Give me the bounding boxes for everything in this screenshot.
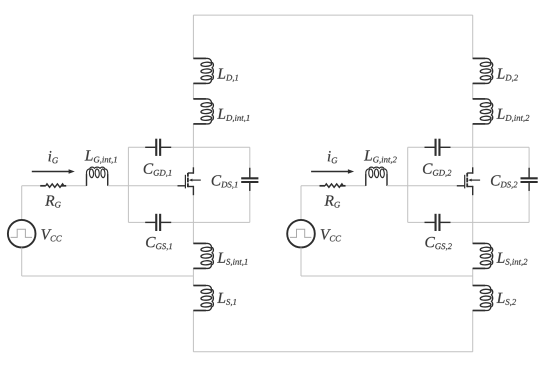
label C_GD,1: [144, 163, 172, 177]
wire L_D,int,1 to MOSFET Q1 drain: [192, 124, 194, 168]
wire between L_S,int,2 and L_S,2 (node S2): [472, 268, 474, 285]
inductor L_S,int,1: [193, 243, 213, 268]
wire gate return to node between L_S,int,2 and L_S,2: [301, 275, 473, 277]
capacitor C_DS,1: [241, 168, 258, 191]
wire top rail (drain bus): [193, 14, 472, 16]
box top edge right of C_GD,2: [440, 146, 529, 148]
capacitor C_GD,1: [145, 139, 171, 156]
label C_GS,1: [146, 237, 172, 251]
box parasitic-capacitance boundary left edge (cell 1): [127, 147, 129, 222]
wire between L_D,2 and L_D,int,2: [472, 83, 474, 99]
label C_DS,2: [491, 175, 517, 189]
wire L_S,2 to bottom rail: [472, 311, 474, 352]
wire V_CC2 negative lead: [300, 248, 302, 277]
wire V_CC2 positive lead: [300, 186, 302, 220]
voltage source V_CC (cell 2): [287, 220, 315, 248]
capacitor C_GS,1: [145, 214, 171, 231]
wire V_CC1 positive lead: [21, 186, 23, 220]
inductor L_D,int,1: [193, 99, 213, 124]
label i_G (cell 1): [49, 151, 59, 163]
label L_G,int,2: [364, 150, 397, 163]
inductor L_G,int,1: [87, 167, 108, 186]
wire V_CC1 negative lead: [21, 248, 23, 277]
capacitor C_GS,2: [425, 214, 451, 231]
wire L_D,int,2 to MOSFET Q2 drain: [472, 124, 474, 168]
box right edge above C_DS,1: [249, 147, 251, 177]
wire L_G,int,2 to MOSFET Q2 gate: [387, 185, 458, 187]
current arrow i_G (cell 1): [32, 169, 75, 173]
label R_G (cell 1): [45, 196, 61, 208]
inductor L_D,2: [473, 58, 493, 83]
inductor L_G,int,2: [366, 167, 387, 186]
capacitor C_DS,2: [521, 168, 538, 191]
wire V_CC2 to R_G (cell 2): [301, 185, 320, 187]
MOSFET Q1: [178, 167, 201, 195]
wire drain bus drop to L_D,2: [472, 15, 474, 58]
wire bottom rail (source bus): [193, 351, 472, 353]
label R_G (cell 2): [324, 196, 340, 208]
wire between L_S,int,1 and L_S,1 (node S1): [192, 268, 194, 285]
box bottom edge right of C_GS,1: [161, 221, 250, 223]
box right edge below C_DS,1: [249, 183, 251, 222]
box top edge right of C_GD,1: [161, 146, 250, 148]
resistor R_G (cell 1): [40, 184, 66, 187]
inductor L_S,1: [193, 286, 213, 311]
inductor L_D,1: [193, 58, 213, 83]
label C_GD,2: [423, 163, 451, 177]
label L_D,1: [217, 69, 238, 82]
wire MOSFET Q1 source to L_S,int,1: [192, 195, 194, 243]
box right edge above C_DS,2: [528, 147, 530, 177]
MOSFET Q2: [457, 167, 480, 195]
inductor L_S,2: [473, 286, 493, 311]
wire drain bus drop to L_D,1: [192, 15, 194, 58]
box top edge left of C_GD,2: [408, 146, 435, 148]
label V_CC (cell 2): [321, 229, 341, 241]
inductor L_D,int,2: [473, 99, 493, 124]
label V_CC (cell 1): [41, 229, 61, 241]
voltage source V_CC (cell 1): [8, 220, 36, 248]
label L_S,2: [497, 293, 517, 306]
label i_G (cell 2): [328, 151, 338, 163]
box bottom edge right of C_GS,2: [440, 221, 529, 223]
box bottom edge left of C_GS,1: [128, 221, 155, 223]
capacitor C_GD,2: [425, 139, 451, 156]
wire L_G,int,1 to MOSFET Q1 gate: [108, 185, 179, 187]
resistor R_G (cell 2): [320, 184, 346, 187]
wire R_G to L_G,int,1: [66, 185, 86, 187]
label L_D,int,1: [217, 109, 249, 122]
wire gate return to node between L_S,int,1 and L_S,1: [22, 275, 194, 277]
box bottom edge left of C_GS,2: [408, 221, 435, 223]
inductor L_S,int,2: [473, 243, 493, 268]
wire MOSFET Q2 source to L_S,int,2: [472, 195, 474, 243]
box top edge left of C_GD,1: [128, 146, 155, 148]
label L_D,int,2: [497, 109, 530, 122]
label L_S,int,1: [217, 253, 247, 266]
label C_GS,2: [425, 237, 451, 251]
label L_D,2: [497, 69, 518, 82]
wire V_CC1 to R_G (cell 1): [22, 185, 41, 187]
label L_S,int,2: [497, 253, 528, 266]
wire R_G to L_G,int,2: [346, 185, 366, 187]
box parasitic-capacitance boundary left edge (cell 2): [407, 147, 409, 222]
box right edge below C_DS,2: [528, 183, 530, 222]
label L_G,int,1: [85, 150, 117, 163]
wire between L_D,1 and L_D,int,1: [192, 83, 194, 99]
label C_DS,1: [212, 175, 238, 189]
wire L_S,1 to bottom rail: [192, 311, 194, 352]
current arrow i_G (cell 2): [311, 169, 354, 173]
label L_S,1: [217, 293, 236, 306]
